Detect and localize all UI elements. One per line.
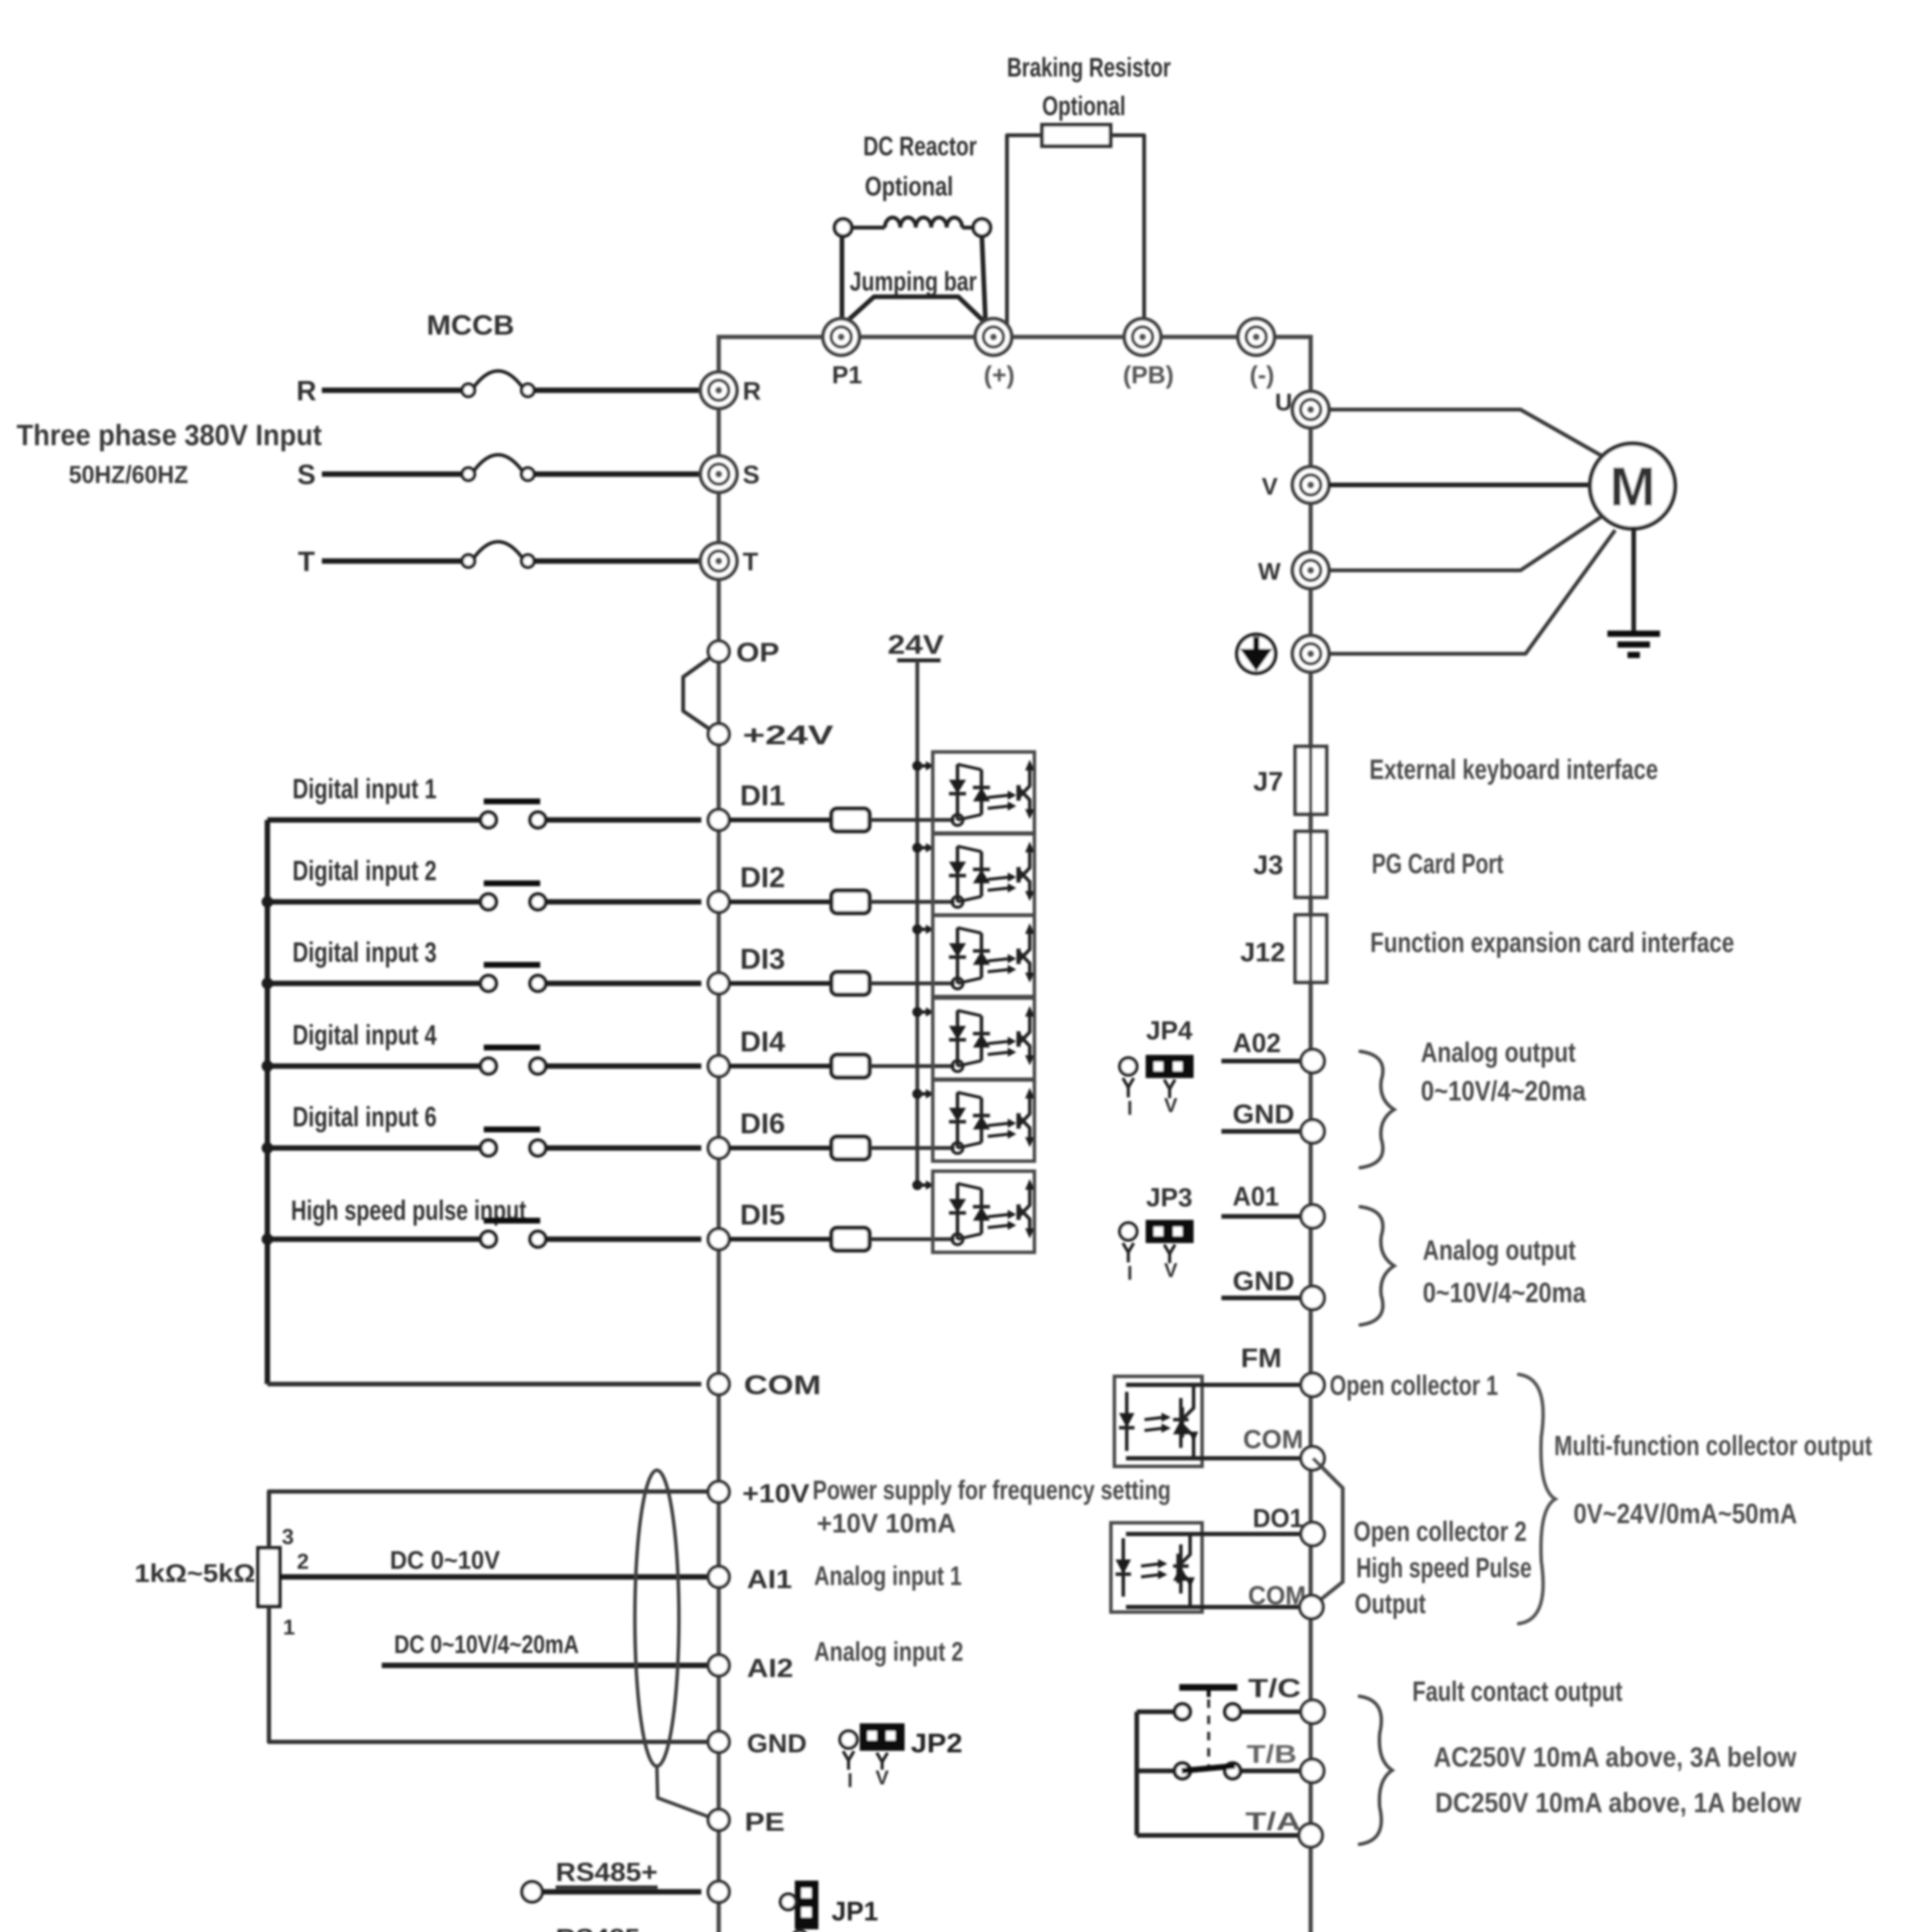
- terminal T/A: [1299, 1824, 1322, 1847]
- svg-text:GND: GND: [1233, 1266, 1294, 1296]
- terminal PE: [708, 1810, 729, 1830]
- connector J3: [1295, 832, 1327, 897]
- svg-text:0V~24V/0mA~50mA: 0V~24V/0mA~50mA: [1573, 1498, 1797, 1529]
- label Multi-function collector output: [1554, 1430, 1872, 1461]
- wire W to motor: [1329, 517, 1601, 570]
- svg-text:JP2: JP2: [911, 1728, 963, 1758]
- label RS485+: [556, 1857, 658, 1887]
- svg-text:J3: J3: [1253, 850, 1283, 880]
- terminal DI4 label: [740, 1026, 785, 1058]
- svg-text:Digital input 3: Digital input 3: [293, 937, 437, 968]
- label RS485-: [556, 1923, 656, 1932]
- label Function expansion card interface: [1370, 927, 1734, 958]
- wire DI5 left: [267, 1236, 481, 1242]
- svg-text:Digital input 2: Digital input 2: [293, 855, 437, 886]
- terminal COM2: [1300, 1595, 1323, 1619]
- wire P1 riser: [840, 236, 844, 327]
- wire DI6 right: [546, 1145, 701, 1151]
- terminal T/B: [1301, 1759, 1324, 1782]
- switch DI5: [481, 1221, 546, 1247]
- wire bus to COM: [267, 1382, 701, 1386]
- terminal COM2 label: [1248, 1581, 1306, 1610]
- terminal RS485+: [708, 1881, 729, 1902]
- svg-text:T/C: T/C: [1248, 1673, 1301, 1703]
- wire A01 stub: [1221, 1214, 1301, 1219]
- svg-text:T/A: T/A: [1245, 1807, 1301, 1835]
- svg-text:1: 1: [283, 1615, 295, 1639]
- terminal OP: [708, 641, 729, 662]
- svg-text:AI1: AI1: [747, 1565, 792, 1594]
- svg-text:V: V: [1164, 1094, 1178, 1117]
- label Analog input 1: [814, 1561, 962, 1591]
- svg-text:J12: J12: [1240, 937, 1286, 967]
- svg-text:V: V: [1164, 1259, 1178, 1282]
- wire DI6 to resistor: [729, 1146, 832, 1150]
- label Digital input 3: [293, 937, 437, 968]
- terminal DI2: [708, 891, 729, 912]
- svg-text:Digital input 4: Digital input 4: [293, 1020, 437, 1051]
- terminal AI1 label: [747, 1565, 792, 1594]
- resistor DI3: [832, 972, 869, 995]
- svg-text:M: M: [1610, 456, 1655, 517]
- terminal PE label: [745, 1807, 785, 1837]
- svg-text:OP: OP: [736, 637, 779, 667]
- wire relay TC row: [1137, 1709, 1175, 1714]
- terminal DI3 label: [740, 943, 785, 975]
- svg-text:RS485−: RS485−: [556, 1923, 656, 1932]
- svg-text:JP4: JP4: [1146, 1016, 1192, 1045]
- icon ground screw: [1237, 634, 1276, 673]
- label Three phase 380V Input: [17, 419, 322, 452]
- svg-text:A02: A02: [1233, 1028, 1281, 1058]
- label Open collector 1: [1330, 1370, 1498, 1401]
- breaker MCCB pole T: [462, 542, 534, 567]
- svg-text:High speed Pulse: High speed Pulse: [1356, 1553, 1532, 1583]
- potentiometer pin 3 label: [282, 1524, 294, 1549]
- wire TC to terminal: [1240, 1709, 1301, 1714]
- terminal PE ground right: [1293, 636, 1329, 672]
- terminal T: [701, 543, 737, 579]
- label +10V 10mA: [817, 1508, 956, 1538]
- terminal GND left label: [747, 1729, 807, 1758]
- svg-text:DI2: DI2: [740, 861, 785, 893]
- wire AI2 input: [382, 1663, 708, 1668]
- wire V to motor: [1329, 483, 1590, 487]
- wire braking resistor left: [1007, 135, 1042, 335]
- terminal GND label: [1233, 1099, 1294, 1129]
- terminal FM label: [1241, 1343, 1282, 1373]
- wire FM COM: [1126, 1456, 1301, 1461]
- svg-text:PE: PE: [745, 1807, 785, 1837]
- relay linkage dashed: [1207, 1699, 1210, 1766]
- connector J3 label: [1253, 850, 1283, 880]
- svg-text:DI4: DI4: [740, 1026, 785, 1058]
- svg-text:Optional: Optional: [865, 171, 953, 201]
- switch DI1: [481, 801, 546, 828]
- svg-text:JP1: JP1: [832, 1896, 878, 1926]
- svg-text:DC250V 10mA above, 1A below: DC250V 10mA above, 1A below: [1435, 1787, 1801, 1818]
- terminal A02: [1301, 1049, 1324, 1073]
- jumper JP3 IV labels: [1127, 1259, 1178, 1284]
- junction 24V rail DI1: [912, 761, 934, 771]
- optocoupler DO1 output: [1111, 1523, 1202, 1612]
- label Digital input 1: [293, 774, 437, 804]
- label DC 0~10V/4~20mA: [394, 1630, 579, 1658]
- label Power supply for frequency setting: [813, 1475, 1171, 1505]
- svg-text:A01: A01: [1233, 1181, 1279, 1211]
- wire DI4 to resistor: [729, 1064, 832, 1068]
- label Digital input 6: [293, 1102, 437, 1133]
- label Open collector 2: [1354, 1516, 1527, 1547]
- wire shield to PE: [657, 1766, 713, 1818]
- wire A02 stub: [1221, 1059, 1301, 1063]
- svg-text:Three phase 380V Input: Three phase 380V Input: [17, 419, 322, 452]
- wire DI2 resistor to optocoupler: [869, 900, 954, 904]
- label phase R: [296, 376, 316, 406]
- svg-text:1kΩ~5kΩ: 1kΩ~5kΩ: [134, 1559, 255, 1587]
- terminal S: [701, 456, 737, 492]
- label DC 0~10V: [390, 1546, 500, 1574]
- shield ellipse: [635, 1470, 679, 1766]
- svg-text:(-): (-): [1250, 361, 1274, 389]
- svg-text:0~10V/4~20ma: 0~10V/4~20ma: [1423, 1277, 1586, 1308]
- terminal FM: [1301, 1373, 1324, 1396]
- optocoupler DI4: [933, 998, 1034, 1079]
- jumper JP3 label: [1146, 1183, 1192, 1212]
- wire DI1 right: [546, 817, 701, 823]
- jumper JP4 IV labels: [1127, 1094, 1178, 1119]
- svg-text:DC 0~10V: DC 0~10V: [390, 1546, 500, 1574]
- jumper JP1 label: [832, 1896, 878, 1926]
- label Analog output a: [1421, 1037, 1576, 1068]
- wire DI2 left: [267, 899, 481, 905]
- wire pot wiper to AI1: [280, 1574, 708, 1580]
- terminal A02 label: [1233, 1028, 1281, 1058]
- svg-text:COM: COM: [1243, 1425, 1303, 1454]
- terminal DI4: [708, 1056, 729, 1077]
- label DC Reactor: [863, 131, 977, 161]
- svg-text:Digital input 1: Digital input 1: [293, 774, 437, 804]
- switch DI6: [481, 1129, 546, 1156]
- jumper JP3: [1120, 1221, 1192, 1263]
- breaker MCCB pole S: [462, 455, 534, 480]
- terminal DI2 label: [740, 861, 785, 893]
- jumper JP2: [840, 1725, 903, 1770]
- terminal (+) label: [984, 361, 1015, 389]
- label DC Reactor Optional: [865, 171, 953, 201]
- wire digital input bus: [265, 820, 270, 1384]
- svg-text:AC250V 10mA above, 3A below: AC250V 10mA above, 3A below: [1434, 1742, 1797, 1773]
- wire pot pin1 to GND: [269, 1606, 708, 1742]
- wire OP +24V bracket: [683, 658, 710, 730]
- wire DI1 resistor to optocoupler: [869, 818, 954, 822]
- svg-text:+24V: +24V: [743, 720, 833, 750]
- wire DO1: [1126, 1532, 1301, 1536]
- terminal (-) label: [1250, 361, 1274, 389]
- optocoupler FM output: [1114, 1376, 1202, 1466]
- inductor DC reactor: [835, 218, 990, 236]
- svg-text:Fault contact output: Fault contact output: [1412, 1676, 1622, 1707]
- wire DI2 right: [546, 899, 701, 905]
- terminal DI6: [708, 1138, 729, 1158]
- wire braking resistor right: [1111, 135, 1144, 335]
- label High speed Pulse: [1356, 1553, 1532, 1583]
- wire DI5 to resistor: [729, 1237, 832, 1242]
- terminal GND: [1301, 1120, 1324, 1143]
- wire relay left bus: [1134, 1712, 1139, 1835]
- terminal P1 label: [832, 361, 862, 389]
- terminal R: [701, 372, 737, 408]
- resistor DI2: [832, 891, 869, 913]
- terminal T/C label: [1248, 1673, 1301, 1703]
- terminal +24V label: [743, 720, 833, 750]
- wire pot pin3 to +10V: [269, 1492, 708, 1548]
- svg-text:DI1: DI1: [740, 779, 785, 811]
- label High speed pulse input: [291, 1195, 526, 1226]
- terminal A01: [1301, 1205, 1324, 1228]
- svg-text:External keyboard interface: External keyboard interface: [1369, 754, 1658, 785]
- jumper JP4: [1120, 1056, 1192, 1098]
- terminal V: [1293, 467, 1329, 503]
- motor M: [1590, 444, 1675, 529]
- label PG Card Port: [1372, 849, 1503, 879]
- wire DI6 resistor to optocoupler: [869, 1146, 954, 1150]
- wire DI3 right: [546, 981, 701, 986]
- svg-text:S: S: [297, 459, 316, 490]
- svg-text:24V: 24V: [888, 629, 944, 660]
- connector J7 label: [1253, 766, 1283, 796]
- svg-text:DI3: DI3: [740, 943, 785, 975]
- terminal +10V: [708, 1481, 729, 1502]
- terminal (+): [975, 319, 1012, 355]
- terminal A01 label: [1233, 1181, 1279, 1211]
- terminal P1: [823, 319, 859, 355]
- terminal S label: [743, 460, 760, 489]
- resistor braking: [1042, 125, 1111, 146]
- terminal DI5 label: [740, 1199, 785, 1231]
- optocoupler DI2: [933, 834, 1034, 915]
- wire 24V rail: [915, 660, 919, 1187]
- svg-text:(PB): (PB): [1123, 361, 1174, 389]
- svg-text:Analog input 1: Analog input 1: [814, 1561, 962, 1591]
- connector J7: [1295, 747, 1327, 814]
- svg-text:0~10V/4~20ma: 0~10V/4~20ma: [1421, 1076, 1586, 1107]
- wire RS485+: [543, 1889, 701, 1895]
- resistor DI5: [832, 1228, 869, 1250]
- jumper JP1: [781, 1882, 817, 1932]
- brace analog output 2: [1360, 1051, 1394, 1168]
- label 24V: [888, 629, 944, 660]
- svg-text:J7: J7: [1253, 766, 1283, 796]
- wire DO1 COM: [1126, 1605, 1301, 1609]
- terminal COM1: [1301, 1447, 1324, 1470]
- junction bus DI5: [262, 1233, 273, 1245]
- label Jumping bar: [850, 266, 977, 296]
- brace analog output 1: [1360, 1207, 1394, 1325]
- svg-text:Open collector 2: Open collector 2: [1354, 1516, 1527, 1547]
- svg-text:Open collector 1: Open collector 1: [1330, 1370, 1498, 1401]
- label AC250V rating: [1434, 1742, 1797, 1773]
- svg-text:PG Card Port: PG Card Port: [1372, 849, 1503, 879]
- label Analog output b: [1423, 1235, 1576, 1266]
- wire plus riser: [982, 236, 986, 327]
- junction 24V rail DI2: [912, 843, 934, 853]
- svg-text:Output: Output: [1355, 1588, 1426, 1619]
- svg-text:Digital input 6: Digital input 6: [293, 1102, 437, 1133]
- terminal T/A label: [1245, 1807, 1301, 1835]
- label 0~10V/4~20ma a: [1421, 1076, 1586, 1107]
- svg-text:W: W: [1258, 558, 1281, 585]
- svg-text:(+): (+): [984, 361, 1015, 389]
- svg-text:T/B: T/B: [1247, 1740, 1297, 1768]
- breaker MCCB pole R: [462, 371, 534, 396]
- relay contact TB: [1175, 1763, 1240, 1779]
- svg-text:Power supply for frequency set: Power supply for frequency setting: [813, 1475, 1171, 1505]
- terminal DI1: [708, 810, 729, 830]
- wire DI3 resistor to optocoupler: [869, 981, 954, 985]
- wire DI3 to resistor: [729, 981, 832, 986]
- terminal DI5: [708, 1229, 729, 1250]
- terminal AI2: [708, 1655, 729, 1676]
- terminal (-): [1238, 319, 1274, 355]
- wire phase S left: [322, 471, 463, 477]
- label DC250V rating: [1435, 1787, 1801, 1818]
- label Fault contact output: [1412, 1676, 1622, 1707]
- svg-text:JP3: JP3: [1146, 1183, 1192, 1212]
- wire FM: [1126, 1383, 1301, 1387]
- svg-text:+10V: +10V: [742, 1479, 810, 1508]
- label Digital input 4: [293, 1020, 437, 1051]
- terminal GND: [1301, 1286, 1324, 1310]
- wire ground to motor: [1329, 530, 1615, 654]
- wire relay TB row: [1137, 1769, 1175, 1773]
- jumper JP2 IV labels: [847, 1767, 889, 1792]
- switch DI4: [481, 1048, 546, 1074]
- terminal (PB) label: [1123, 361, 1174, 389]
- wire DI5 resistor to optocoupler: [869, 1237, 954, 1241]
- label External keyboard interface: [1369, 754, 1658, 785]
- terminal +10V label: [742, 1479, 810, 1508]
- wire motor ground stem: [1631, 526, 1636, 634]
- wire jumping bar: [841, 297, 989, 327]
- junction bus DI3: [262, 978, 273, 989]
- svg-text:V: V: [876, 1767, 889, 1789]
- label Digital input 2: [293, 855, 437, 886]
- svg-text:DI5: DI5: [740, 1199, 785, 1231]
- wire GND stub: [1221, 1129, 1301, 1134]
- svg-text:I: I: [1127, 1262, 1133, 1284]
- label Braking Resistor Optional: [1042, 91, 1126, 121]
- svg-text:2: 2: [297, 1549, 309, 1573]
- terminal T/C: [1301, 1700, 1324, 1723]
- switch DI2: [481, 883, 546, 910]
- svg-text:COM: COM: [744, 1370, 821, 1400]
- terminal W label: [1258, 558, 1281, 585]
- svg-text:T: T: [743, 547, 758, 576]
- svg-text:Analog output: Analog output: [1423, 1235, 1576, 1266]
- optocoupler DI5: [933, 1171, 1034, 1252]
- svg-text:T: T: [298, 546, 315, 577]
- terminal W: [1293, 552, 1329, 588]
- terminal COM: [708, 1374, 729, 1395]
- wire TB to terminal: [1240, 1769, 1301, 1773]
- potentiometer body: [258, 1548, 280, 1606]
- connector J12 label: [1240, 937, 1286, 967]
- wire DI1 to resistor: [729, 818, 832, 822]
- wire DI4 right: [546, 1063, 701, 1069]
- terminal DI1 label: [740, 779, 785, 811]
- terminal U: [1293, 391, 1329, 428]
- junction 24V rail DI6: [912, 1089, 934, 1099]
- terminal GND label: [1233, 1266, 1294, 1296]
- wire U to motor: [1329, 410, 1602, 456]
- junction 24V rail DI3: [912, 924, 934, 934]
- wire COM bypass: [1311, 1458, 1343, 1607]
- terminal DO1: [1301, 1522, 1324, 1546]
- wire DI2 to resistor: [729, 900, 832, 904]
- svg-text:DI6: DI6: [740, 1107, 785, 1139]
- svg-text:+10V 10mA: +10V 10mA: [817, 1508, 956, 1538]
- potentiometer pin 1 label: [283, 1615, 295, 1639]
- wire relay TA row: [1137, 1833, 1298, 1838]
- resistor DI4: [832, 1055, 869, 1077]
- svg-text:DC 0~10V/4~20mA: DC 0~10V/4~20mA: [394, 1630, 579, 1658]
- label 1k-5k ohm: [134, 1559, 255, 1587]
- svg-text:COM: COM: [1248, 1581, 1306, 1610]
- wire phase T left: [322, 558, 463, 564]
- brace multi-function collector output: [1519, 1374, 1555, 1624]
- wire DI4 resistor to optocoupler: [869, 1064, 954, 1068]
- terminal U label: [1275, 389, 1293, 416]
- relay contact TC: [1175, 1687, 1240, 1719]
- svg-text:Analog output: Analog output: [1421, 1037, 1576, 1068]
- svg-text:DC Reactor: DC Reactor: [863, 131, 977, 161]
- terminal (PB): [1124, 319, 1161, 355]
- junction 24V rail DI5: [912, 1180, 934, 1190]
- wire DI6 left: [267, 1145, 481, 1151]
- wire DI3 left: [267, 981, 481, 986]
- terminal R label: [743, 376, 761, 405]
- svg-text:Function expansion card interf: Function expansion card interface: [1370, 927, 1734, 958]
- svg-text:3: 3: [282, 1524, 294, 1549]
- terminal AI2 label: [747, 1653, 793, 1683]
- svg-text:I: I: [1127, 1097, 1133, 1119]
- wire phase S right: [534, 471, 701, 477]
- junction 24V rail DI4: [912, 1007, 934, 1017]
- resistor DI6: [832, 1137, 869, 1159]
- svg-text:50HZ/60HZ: 50HZ/60HZ: [69, 461, 188, 488]
- label 50HZ/60HZ: [69, 461, 188, 488]
- jumper JP2 label: [911, 1728, 963, 1758]
- svg-text:P1: P1: [832, 361, 862, 389]
- junction bus DI2: [262, 896, 273, 908]
- potentiometer pin 2 label: [297, 1549, 309, 1573]
- svg-text:Analog input 2: Analog input 2: [814, 1636, 963, 1667]
- inverter main box outline: [719, 337, 1311, 1932]
- terminal GND left: [708, 1731, 729, 1752]
- svg-text:R: R: [296, 376, 316, 406]
- terminal AI1: [708, 1566, 729, 1587]
- svg-text:GND: GND: [1233, 1099, 1294, 1129]
- wire GND stub: [1221, 1296, 1301, 1300]
- terminal DI3: [708, 973, 729, 994]
- switch DI3: [481, 965, 546, 991]
- junction bus DI6: [262, 1142, 273, 1154]
- resistor DI1: [832, 809, 869, 831]
- svg-text:DO1: DO1: [1253, 1503, 1303, 1533]
- wire DI5 right: [546, 1236, 701, 1242]
- wire phase T right: [534, 558, 701, 564]
